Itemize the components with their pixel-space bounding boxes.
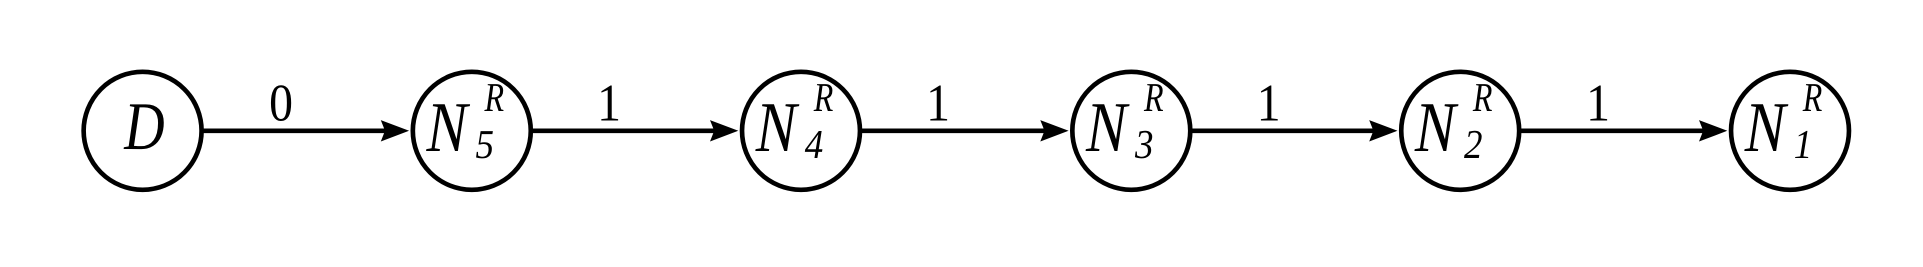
svg-text:R: R — [484, 74, 504, 120]
svg-text:N: N — [1085, 88, 1130, 167]
svg-text:N: N — [1744, 88, 1789, 167]
svg-text:N: N — [755, 88, 800, 167]
svg-text:1: 1 — [1257, 74, 1281, 132]
svg-text:R: R — [1802, 74, 1822, 120]
svg-text:1: 1 — [926, 74, 950, 132]
svg-text:N: N — [426, 88, 471, 167]
svg-text:R: R — [1143, 74, 1163, 120]
svg-text:R: R — [1472, 74, 1492, 120]
svg-text:4: 4 — [805, 121, 823, 167]
svg-text:R: R — [813, 74, 833, 120]
svg-text:0: 0 — [269, 74, 293, 132]
svg-text:2: 2 — [1464, 121, 1482, 167]
svg-text:5: 5 — [476, 121, 494, 167]
svg-text:N: N — [1414, 88, 1459, 167]
svg-text:D: D — [123, 88, 164, 164]
svg-text:1: 1 — [1794, 121, 1812, 167]
svg-text:1: 1 — [597, 74, 621, 132]
svg-text:3: 3 — [1134, 121, 1153, 167]
svg-text:1: 1 — [1586, 74, 1610, 132]
